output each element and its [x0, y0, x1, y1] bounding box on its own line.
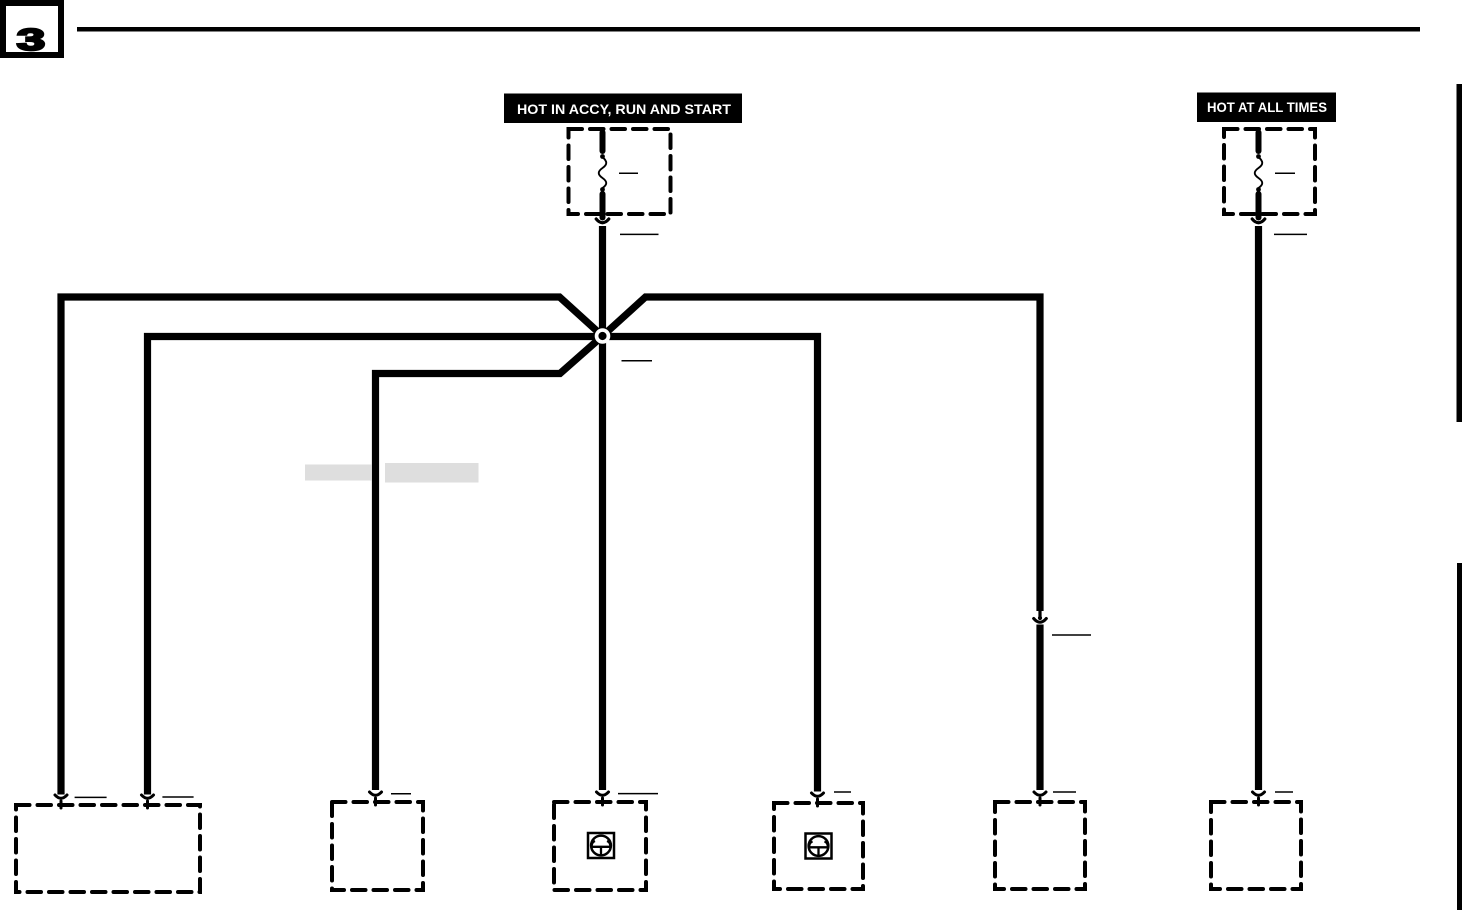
svg-text:HOT AT ALL TIMES: HOT AT ALL TIMES — [1207, 99, 1327, 115]
svg-text:3: 3 — [17, 22, 45, 56]
svg-text:HOT IN ACCY, RUN AND START: HOT IN ACCY, RUN AND START — [517, 101, 731, 117]
